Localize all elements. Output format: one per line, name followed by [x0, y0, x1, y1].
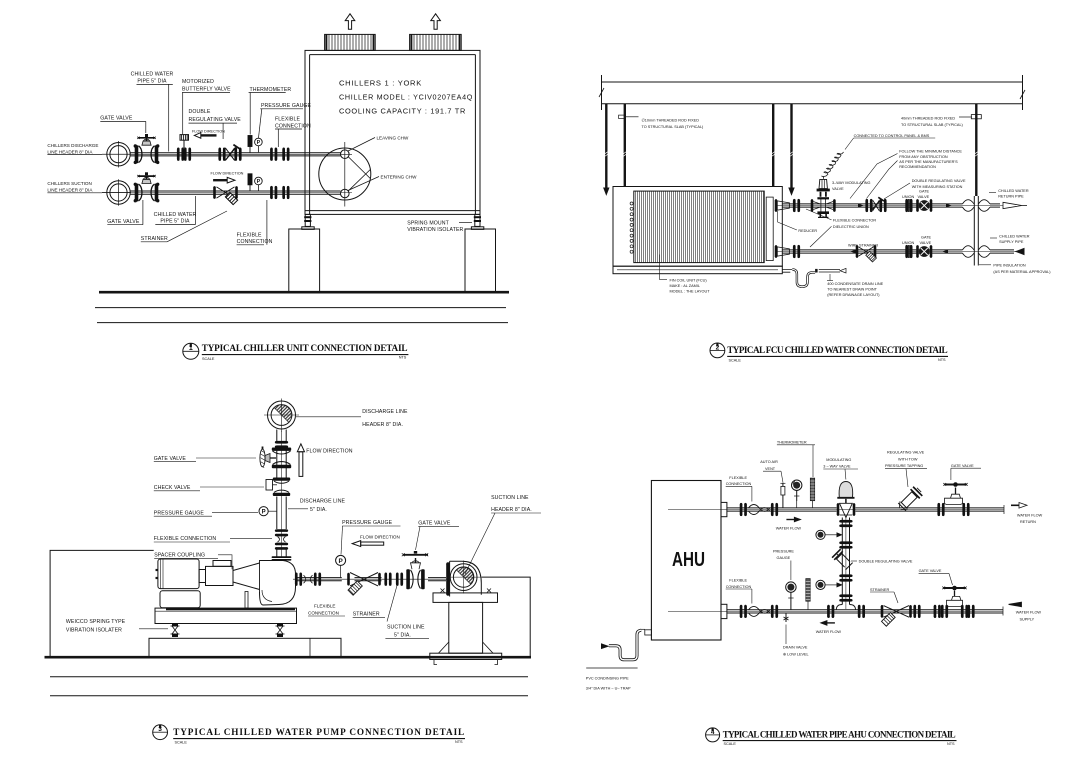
chiller fan louver left [325, 34, 376, 50]
reducer top [775, 199, 800, 212]
water flow supply arrow [1009, 602, 1022, 606]
svg-text:STRAINER: STRAINER [353, 612, 380, 618]
branch gauge 1 [816, 530, 842, 539]
label modulating 3-way valve [823, 458, 851, 469]
svg-text:SUPPLY: SUPPLY [1020, 617, 1035, 621]
branch tee join [836, 605, 855, 610]
nozzle chords [348, 157, 370, 192]
svg-text:TO STRUCTURAL SLAB (TYPICAL: TO STRUCTURAL SLAB (TYPICAL) [901, 123, 964, 127]
flexible connection riser [275, 529, 288, 550]
svg-text:PRESSURE GAUGE: PRESSURE GAUGE [154, 510, 205, 516]
pressure gauge top [792, 480, 802, 508]
svg-text:SUCTION LINE: SUCTION LINE [387, 625, 425, 631]
svg-text:VALVE: VALVE [920, 241, 932, 245]
svg-text:AHU: AHU [672, 549, 705, 571]
flexible connection discharge [270, 148, 289, 161]
svg-text:REDUCER: REDUCER [798, 229, 817, 233]
svg-text:SUPPLY PIPE: SUPPLY PIPE [999, 240, 1024, 244]
chiller unit body [305, 50, 480, 214]
svg-text:4: 4 [711, 729, 715, 736]
union top [905, 199, 912, 212]
svg-text:PRESSURE TAPPING: PRESSURE TAPPING [885, 464, 923, 468]
svg-text:∅10mm THREADED ROD FIXED: ∅10mm THREADED ROD FIXED [642, 119, 700, 123]
svg-text:SCALE: SCALE [724, 742, 737, 746]
label weicco [66, 619, 126, 634]
label chillers discharge [47, 143, 98, 154]
svg-text:UNION: UNION [902, 195, 914, 199]
suction pipe horizontal [293, 578, 447, 581]
floor line 3 [50, 695, 528, 697]
flange bottom 7 [967, 605, 974, 618]
check valve riser [266, 478, 290, 497]
svg-text:CHILLERS DISCHARGE: CHILLERS DISCHARGE [47, 143, 98, 148]
threaded rod 5 / riser hanger [971, 104, 981, 196]
suction header circle [102, 179, 131, 206]
svg-text:SCALE: SCALE [729, 358, 742, 362]
threaded rod 1 [604, 104, 609, 195]
svg-text:5" DIA.: 5" DIA. [394, 633, 411, 639]
centerline [344, 142, 346, 207]
svg-text:THERMOMETER: THERMOMETER [250, 87, 292, 93]
svg-text:GATE VALVE: GATE VALVE [919, 569, 942, 573]
flow direction arrow right (suction) [213, 177, 235, 183]
nozzle top circle [341, 150, 350, 159]
svg-text:CONNECTED TO CONTROL PANEL: CONNECTED TO CONTROL PANEL & BMS [854, 134, 930, 138]
gate valve suction [134, 172, 160, 202]
flange bottom 4 [858, 605, 865, 618]
svg-text:TYPICAL CHILLED WATER PUMP: TYPICAL CHILLED WATER PUMP CONNECTION DE… [173, 727, 464, 737]
FCU drain pan [613, 266, 782, 274]
svg-text:(AS PER MATERIAL APPROVAL): (AS PER MATERIAL APPROVAL) [993, 270, 1051, 274]
flange bottom 3 [827, 605, 834, 618]
svg-text:SPACER COUPLING: SPACER COUPLING [154, 553, 205, 559]
svg-text:FLOW DIRECTION: FLOW DIRECTION [211, 172, 244, 176]
regulating valve with tow pressure tapping [895, 485, 923, 513]
svg-text:TYPICAL FCU CHILLED WATER: TYPICAL FCU CHILLED WATER CONNECTION DET… [727, 345, 947, 355]
title 1 circle [183, 343, 199, 359]
concrete pad right [465, 229, 496, 292]
motor [156, 559, 201, 608]
svg-text:PRESSURE: PRESSURE [773, 549, 794, 553]
coupling connector [199, 570, 205, 583]
svg-text:SCALE: SCALE [202, 357, 215, 361]
svg-text:TO NEAREST DRAIN POINT: TO NEAREST DRAIN POINT [827, 288, 877, 292]
svg-text:3/4" DIA WITH – U– TRAP: 3/4" DIA WITH – U– TRAP [586, 686, 631, 690]
svg-text:FLEXIBLE: FLEXIBLE [237, 233, 262, 239]
svg-text:CHECK VALVE: CHECK VALVE [154, 485, 191, 491]
gate valve suction (handwheel up) [402, 551, 428, 589]
3-way modulating valve [811, 179, 836, 217]
label chilled water pipe bottom [154, 212, 197, 225]
svg-text:P: P [262, 510, 266, 516]
label flexible connection bottom [237, 233, 273, 246]
chilled water return pipe (top) [775, 204, 1003, 207]
spring isolator right [276, 623, 285, 636]
svg-text:CHILLED WATER: CHILLED WATER [131, 72, 174, 78]
double regulating valve branch [832, 549, 854, 571]
pump casing [245, 561, 296, 609]
svg-text:CHILLERS 1 : YORK: CHILLERS 1 : YORK [339, 79, 422, 88]
flow direction arrow left (discharge) [194, 133, 216, 139]
room outline left [50, 550, 154, 656]
floor ground line thick [99, 291, 509, 294]
svg-text:GATE VALVE: GATE VALVE [951, 464, 974, 468]
svg-text:DISCHARGE LINE: DISCHARGE LINE [300, 499, 346, 505]
svg-text:GAUGE: GAUGE [777, 556, 791, 560]
3-way modulating valve [837, 482, 856, 518]
threaded rod 2 [623, 104, 627, 187]
label double regulating valve [912, 179, 966, 189]
label threaded rod left [642, 119, 705, 129]
chilled water supply pipe (bottom) [775, 250, 1016, 253]
svg-text:5" DIA.: 5" DIA. [310, 507, 327, 513]
discharge riser pipe [277, 430, 286, 558]
thermometer discharge [248, 136, 252, 153]
label chilled water pipe top [131, 72, 174, 85]
svg-text:CHILLER MODEL : YCIV0207EA4: CHILLER MODEL : YCIV0207EA4Q [339, 93, 473, 102]
svg-text:1: 1 [189, 345, 193, 352]
motorized butterfly valve [177, 135, 191, 161]
label auto air vent [760, 460, 778, 471]
gate valve bottom (plan) [916, 245, 932, 258]
svg-text:MOTORIZED: MOTORIZED [182, 79, 214, 85]
AHU box [651, 481, 721, 641]
floor line 2 [95, 307, 506, 309]
pressure gauge suction [255, 177, 263, 190]
room outline right [482, 577, 531, 657]
svg-text:SCALE: SCALE [175, 741, 188, 745]
pump horn [233, 560, 260, 592]
svg-text:MODEL : THE LAYOUT: MODEL : THE LAYOUT [670, 290, 711, 294]
svg-text:3–WAY MODULATING: 3–WAY MODULATING [832, 181, 871, 185]
svg-text:NTS: NTS [455, 740, 463, 744]
flow arrows return pipe [858, 204, 952, 208]
svg-text:NTS: NTS [938, 358, 946, 362]
label discharge line header [362, 409, 408, 428]
label double regulating valve [189, 109, 242, 123]
svg-text:FLOW DIRECTION: FLOW DIRECTION [306, 448, 353, 454]
flow direction arrow up [297, 444, 304, 477]
chiller fan louver right [410, 34, 462, 50]
svg-text:GATE VALVE: GATE VALVE [418, 521, 451, 527]
svg-text:3 – WAY VALVE: 3 – WAY VALVE [823, 465, 851, 469]
svg-text:RETURN: RETURN [1020, 520, 1036, 524]
FCU coil tube ends [630, 202, 633, 253]
water flow label top (near AHU) [786, 517, 800, 521]
branch flange 4 [839, 594, 852, 601]
label flexible connection bottom [726, 578, 752, 588]
svg-text:WATER FLOW: WATER FLOW [1016, 611, 1042, 615]
svg-text:CONNECTION: CONNECTION [726, 482, 752, 486]
floor line 2 [50, 676, 528, 678]
svg-text:VENT: VENT [765, 467, 776, 471]
discharge header circle [264, 399, 299, 432]
title 3 circle [153, 725, 168, 740]
double regulating valve with measuring station [865, 197, 886, 212]
svg-text:CHILLED WATER: CHILLED WATER [999, 235, 1030, 239]
svg-text:FLOW DIRECTION: FLOW DIRECTION [192, 130, 225, 134]
svg-text:HEADER 8" DIA.: HEADER 8" DIA. [362, 422, 403, 428]
floor thick line [45, 656, 532, 659]
strainer suction [213, 186, 238, 205]
base frame [155, 608, 297, 623]
spacer [213, 561, 231, 567]
pressure gauge suction [336, 555, 346, 577]
flange joint [275, 441, 288, 448]
svg-text:(REFER DRAINAGE LAYOUT): (REFER DRAINAGE LAYOUT) [827, 293, 880, 297]
slab end ticks [601, 75, 603, 110]
svg-text:LEAVING CHW: LEAVING CHW [377, 135, 409, 140]
svg-text:CONNECTION: CONNECTION [726, 585, 752, 589]
svg-text:MAKE : AL ZAMIL: MAKE : AL ZAMIL [670, 284, 700, 288]
AHU stub top [721, 502, 727, 516]
concrete pad [149, 638, 341, 656]
flange top 1 [740, 503, 747, 516]
svg-text:DOUBLE REGULATING VALVE: DOUBLE REGULATING VALVE [912, 179, 966, 183]
floor line 3 [97, 322, 508, 324]
riser pipe vertical [974, 196, 978, 266]
drain valve [784, 613, 789, 644]
thermometer top [810, 478, 814, 508]
AHU stub bottom [721, 604, 727, 618]
svg-text:STRAINER: STRAINER [870, 588, 889, 592]
strainer bottom [881, 605, 912, 626]
flange bottom 1 [740, 605, 747, 618]
label leaving chw [348, 138, 375, 152]
pump top flange [272, 556, 292, 560]
svg-text:VALVE: VALVE [832, 187, 844, 191]
svg-text:⊕ LOW LEVEL: ⊕ LOW LEVEL [783, 653, 809, 657]
water flow label bottom [821, 621, 835, 625]
label 3-way modulating valve [832, 181, 871, 191]
pressure gauge discharge [255, 138, 263, 152]
label chillers suction [47, 181, 93, 192]
svg-text:WATER FLOW: WATER FLOW [816, 630, 842, 634]
gate valve top (plan) [916, 199, 932, 212]
svg-text:2: 2 [716, 344, 720, 351]
gate valve top pipe [937, 482, 969, 516]
svg-text:DISCHARGE LINE: DISCHARGE LINE [362, 409, 408, 415]
spring isolator left [171, 623, 180, 636]
label threaded rod right [901, 117, 964, 127]
svg-text:PIPE 5" DIA: PIPE 5" DIA [160, 219, 190, 225]
wire strainer bottom pipe [856, 245, 877, 262]
flexible connection suction [295, 573, 321, 586]
svg-text:DOUBLE: DOUBLE [189, 109, 211, 115]
flexible connection top [749, 505, 770, 515]
label suction line header [491, 495, 532, 513]
svg-text:SPRING MOUNT: SPRING MOUNT [407, 220, 449, 226]
supply pipe bottom [668, 607, 1003, 616]
thermometer suction [248, 174, 252, 191]
coupling [206, 566, 234, 585]
svg-text:TYPICAL CHILLER UNIT CONNEC: TYPICAL CHILLER UNIT CONNECTION DETAIL [202, 343, 408, 353]
leg left [302, 214, 314, 229]
svg-text:LINE HEADER 8" DIA: LINE HEADER 8" DIA [47, 149, 93, 154]
label pvc condensing pipe [586, 676, 631, 690]
condensate U-trap [782, 268, 846, 286]
thermometer bottom [806, 579, 810, 610]
supply arrow [1016, 249, 1024, 255]
svg-text:THERMOMETER: THERMOMETER [777, 441, 807, 445]
leg right [471, 214, 483, 229]
label follow minimum distance [899, 150, 962, 170]
svg-text:NTS: NTS [947, 742, 955, 746]
return arrow [1003, 202, 1022, 208]
svg-text:AS PER THE MANUFACTURER'S: AS PER THE MANUFACTURER'S [899, 160, 958, 164]
elbow support stand [430, 589, 502, 665]
svg-text:VALVE: VALVE [918, 195, 930, 199]
discharge header circle [102, 141, 131, 168]
air flow arrow left [345, 14, 355, 29]
svg-text:RETURN PIPE: RETURN PIPE [998, 195, 1024, 199]
return pipe top [668, 505, 1004, 514]
svg-text:CHILLED WATER: CHILLED WATER [998, 189, 1029, 193]
svg-text:STRAINER: STRAINER [141, 236, 168, 242]
svg-text:VIBRATION ISOLATER: VIBRATION ISOLATER [407, 227, 463, 233]
label discharge line 5 dia [300, 499, 346, 513]
svg-text:MODULATING: MODULATING [826, 458, 851, 462]
flange bottom 2 [771, 605, 778, 618]
break marks [599, 88, 1025, 99]
label spring mount [407, 220, 463, 233]
svg-text:FLEXIBLE: FLEXIBLE [275, 117, 300, 123]
svg-text:BUTTERFLY VALVE: BUTTERFLY VALVE [182, 87, 231, 93]
suction pipe (bottom) [102, 191, 352, 194]
branch flange 3 [839, 574, 852, 581]
svg-text:WITH TOW: WITH TOW [898, 457, 918, 461]
union bottom [905, 245, 912, 258]
concrete pad left [289, 229, 320, 292]
flow arrows supply pipe [851, 250, 949, 254]
gate valve bottom pipe [941, 586, 968, 618]
svg-text:WIRE STRAINER: WIRE STRAINER [848, 243, 878, 247]
svg-text:DRAIN VALVE: DRAIN VALVE [783, 646, 808, 650]
svg-text:GATE VALVE: GATE VALVE [100, 116, 133, 122]
svg-text:GATE VALVE: GATE VALVE [107, 219, 140, 225]
svg-text:DOUBLE REGULATING VALVE: DOUBLE REGULATING VALVE [859, 560, 913, 564]
svg-text:FLEXIBLE CONNECTION: FLEXIBLE CONNECTION [154, 536, 217, 542]
svg-text:HEADER 8" DIA.: HEADER 8" DIA. [491, 507, 532, 513]
svg-text:FLOW DIRECTION: FLOW DIRECTION [360, 534, 400, 539]
label pressure gauge bottom [773, 549, 794, 560]
label entering chw [348, 177, 379, 191]
flanges before gate valve [384, 573, 391, 586]
flexible connection bottom [749, 606, 770, 616]
svg-text:3: 3 [158, 726, 162, 733]
svg-text:TO STRUCTURAL SLAB (TYPICAL: TO STRUCTURAL SLAB (TYPICAL) [642, 125, 705, 129]
air flow arrow right [431, 14, 441, 29]
evaporator circle [319, 148, 371, 200]
gate valve discharge [134, 134, 160, 164]
auto air vent [780, 483, 785, 508]
svg-text:PIPE INSULATION: PIPE INSULATION [993, 264, 1025, 268]
slab line 2 [602, 103, 1023, 105]
chiller name text [339, 79, 473, 116]
svg-text:REGULATING VALVE: REGULATING VALVE [887, 451, 925, 455]
svg-text:NTS: NTS [399, 356, 407, 360]
gate valve riser (handle left) [260, 447, 291, 469]
svg-text:SUCTION LINE: SUCTION LINE [491, 495, 529, 501]
double regulating valve discharge [218, 145, 241, 161]
water flow return arrow [1011, 503, 1027, 509]
threaded rod 4 [789, 104, 794, 195]
svg-text:GATE VALVE: GATE VALVE [154, 456, 187, 462]
PVC condensate pipe [586, 629, 651, 668]
label suction line 5 dia [387, 625, 425, 639]
suction elbow [446, 561, 481, 597]
svg-text:UNION: UNION [902, 241, 914, 245]
svg-text:COOLING CAPACITY : 191.7 T: COOLING CAPACITY : 191.7 TR [339, 107, 466, 116]
label pipe insulation [993, 264, 1051, 275]
svg-text:40mm THREADED ROD FIXED: 40mm THREADED ROD FIXED [901, 117, 955, 121]
nozzle bottom circle [341, 189, 350, 198]
svg-text:PRESSURE GAUGE: PRESSURE GAUGE [261, 103, 312, 109]
svg-text:FLEXIBLE: FLEXIBLE [314, 604, 335, 609]
svg-text:CHILLED WATER: CHILLED WATER [154, 212, 197, 218]
pressure gauge riser [259, 507, 277, 516]
svg-text:400 CONDENSATE DRAIN LINE: 400 CONDENSATE DRAIN LINE [827, 282, 883, 286]
branch gauge 2 [816, 580, 842, 589]
label chilled water supply [999, 235, 1030, 245]
label condensate drain [827, 282, 883, 297]
svg-text:WITH MEASURING STATION: WITH MEASURING STATION [912, 185, 963, 189]
svg-text:GATE: GATE [921, 236, 932, 240]
reducer bottom [775, 245, 800, 258]
title 4 circle [706, 728, 720, 742]
structural slab line [602, 81, 1023, 83]
svg-text:FIN COIL UNIT (FCU): FIN COIL UNIT (FCU) [670, 279, 708, 283]
title 2 circle [710, 343, 725, 358]
label flexible connection top [275, 117, 311, 130]
svg-text:FLEXIBLE: FLEXIBLE [729, 578, 747, 582]
branch flange 2 [839, 541, 852, 548]
label chilled water return [998, 189, 1029, 199]
svg-text:PVC CONDINSING PIPE: PVC CONDINSING PIPE [586, 676, 629, 680]
actuator spring coil [821, 152, 843, 177]
FCU right header panel [766, 197, 773, 261]
svg-text:REGULATING VALVE: REGULATING VALVE [189, 117, 242, 123]
svg-text:LINE HEADER 8" DIA: LINE HEADER 8" DIA [47, 187, 93, 192]
FCU unit casing [613, 187, 782, 267]
label fin coil unit [670, 279, 711, 294]
flange bottom 5 [913, 605, 920, 618]
label flexible connection top [726, 476, 752, 486]
svg-text:FROM ANY OBSTRUCTION: FROM ANY OBSTRUCTION [899, 155, 948, 159]
svg-text:RECOMMENDATION: RECOMMENDATION [899, 165, 936, 169]
label regulating valve [885, 451, 925, 469]
branch pipe vertical [842, 518, 849, 610]
svg-text:AUTO AIR: AUTO AIR [760, 460, 778, 464]
riser crossing top [963, 200, 991, 212]
svg-text:CHILLERS SUCTION: CHILLERS SUCTION [47, 181, 91, 186]
strainer suction [347, 573, 381, 596]
svg-text:WATER FLOW: WATER FLOW [776, 527, 802, 531]
riser crossing bottom [963, 246, 991, 258]
FCU coil hatch [635, 191, 763, 263]
svg-text:P: P [338, 558, 343, 565]
svg-text:WEICCO SPRING TYPE: WEICCO SPRING TYPE [66, 619, 126, 625]
svg-text:PRESSURE GAUGE: PRESSURE GAUGE [342, 520, 393, 526]
flexible connection suction [270, 186, 289, 199]
svg-text:VIBRATION ISOLATER: VIBRATION ISOLATER [66, 627, 122, 633]
svg-text:DIELECTRIC UNION: DIELECTRIC UNION [833, 225, 869, 229]
svg-text:FLEXIBLE CONNECTOR: FLEXIBLE CONNECTOR [833, 218, 876, 222]
branch flange 1 [839, 520, 852, 527]
pressure gauge bottom pipe [786, 582, 796, 610]
flange bottom 6 [934, 605, 941, 618]
threaded rod 3 [771, 104, 775, 187]
